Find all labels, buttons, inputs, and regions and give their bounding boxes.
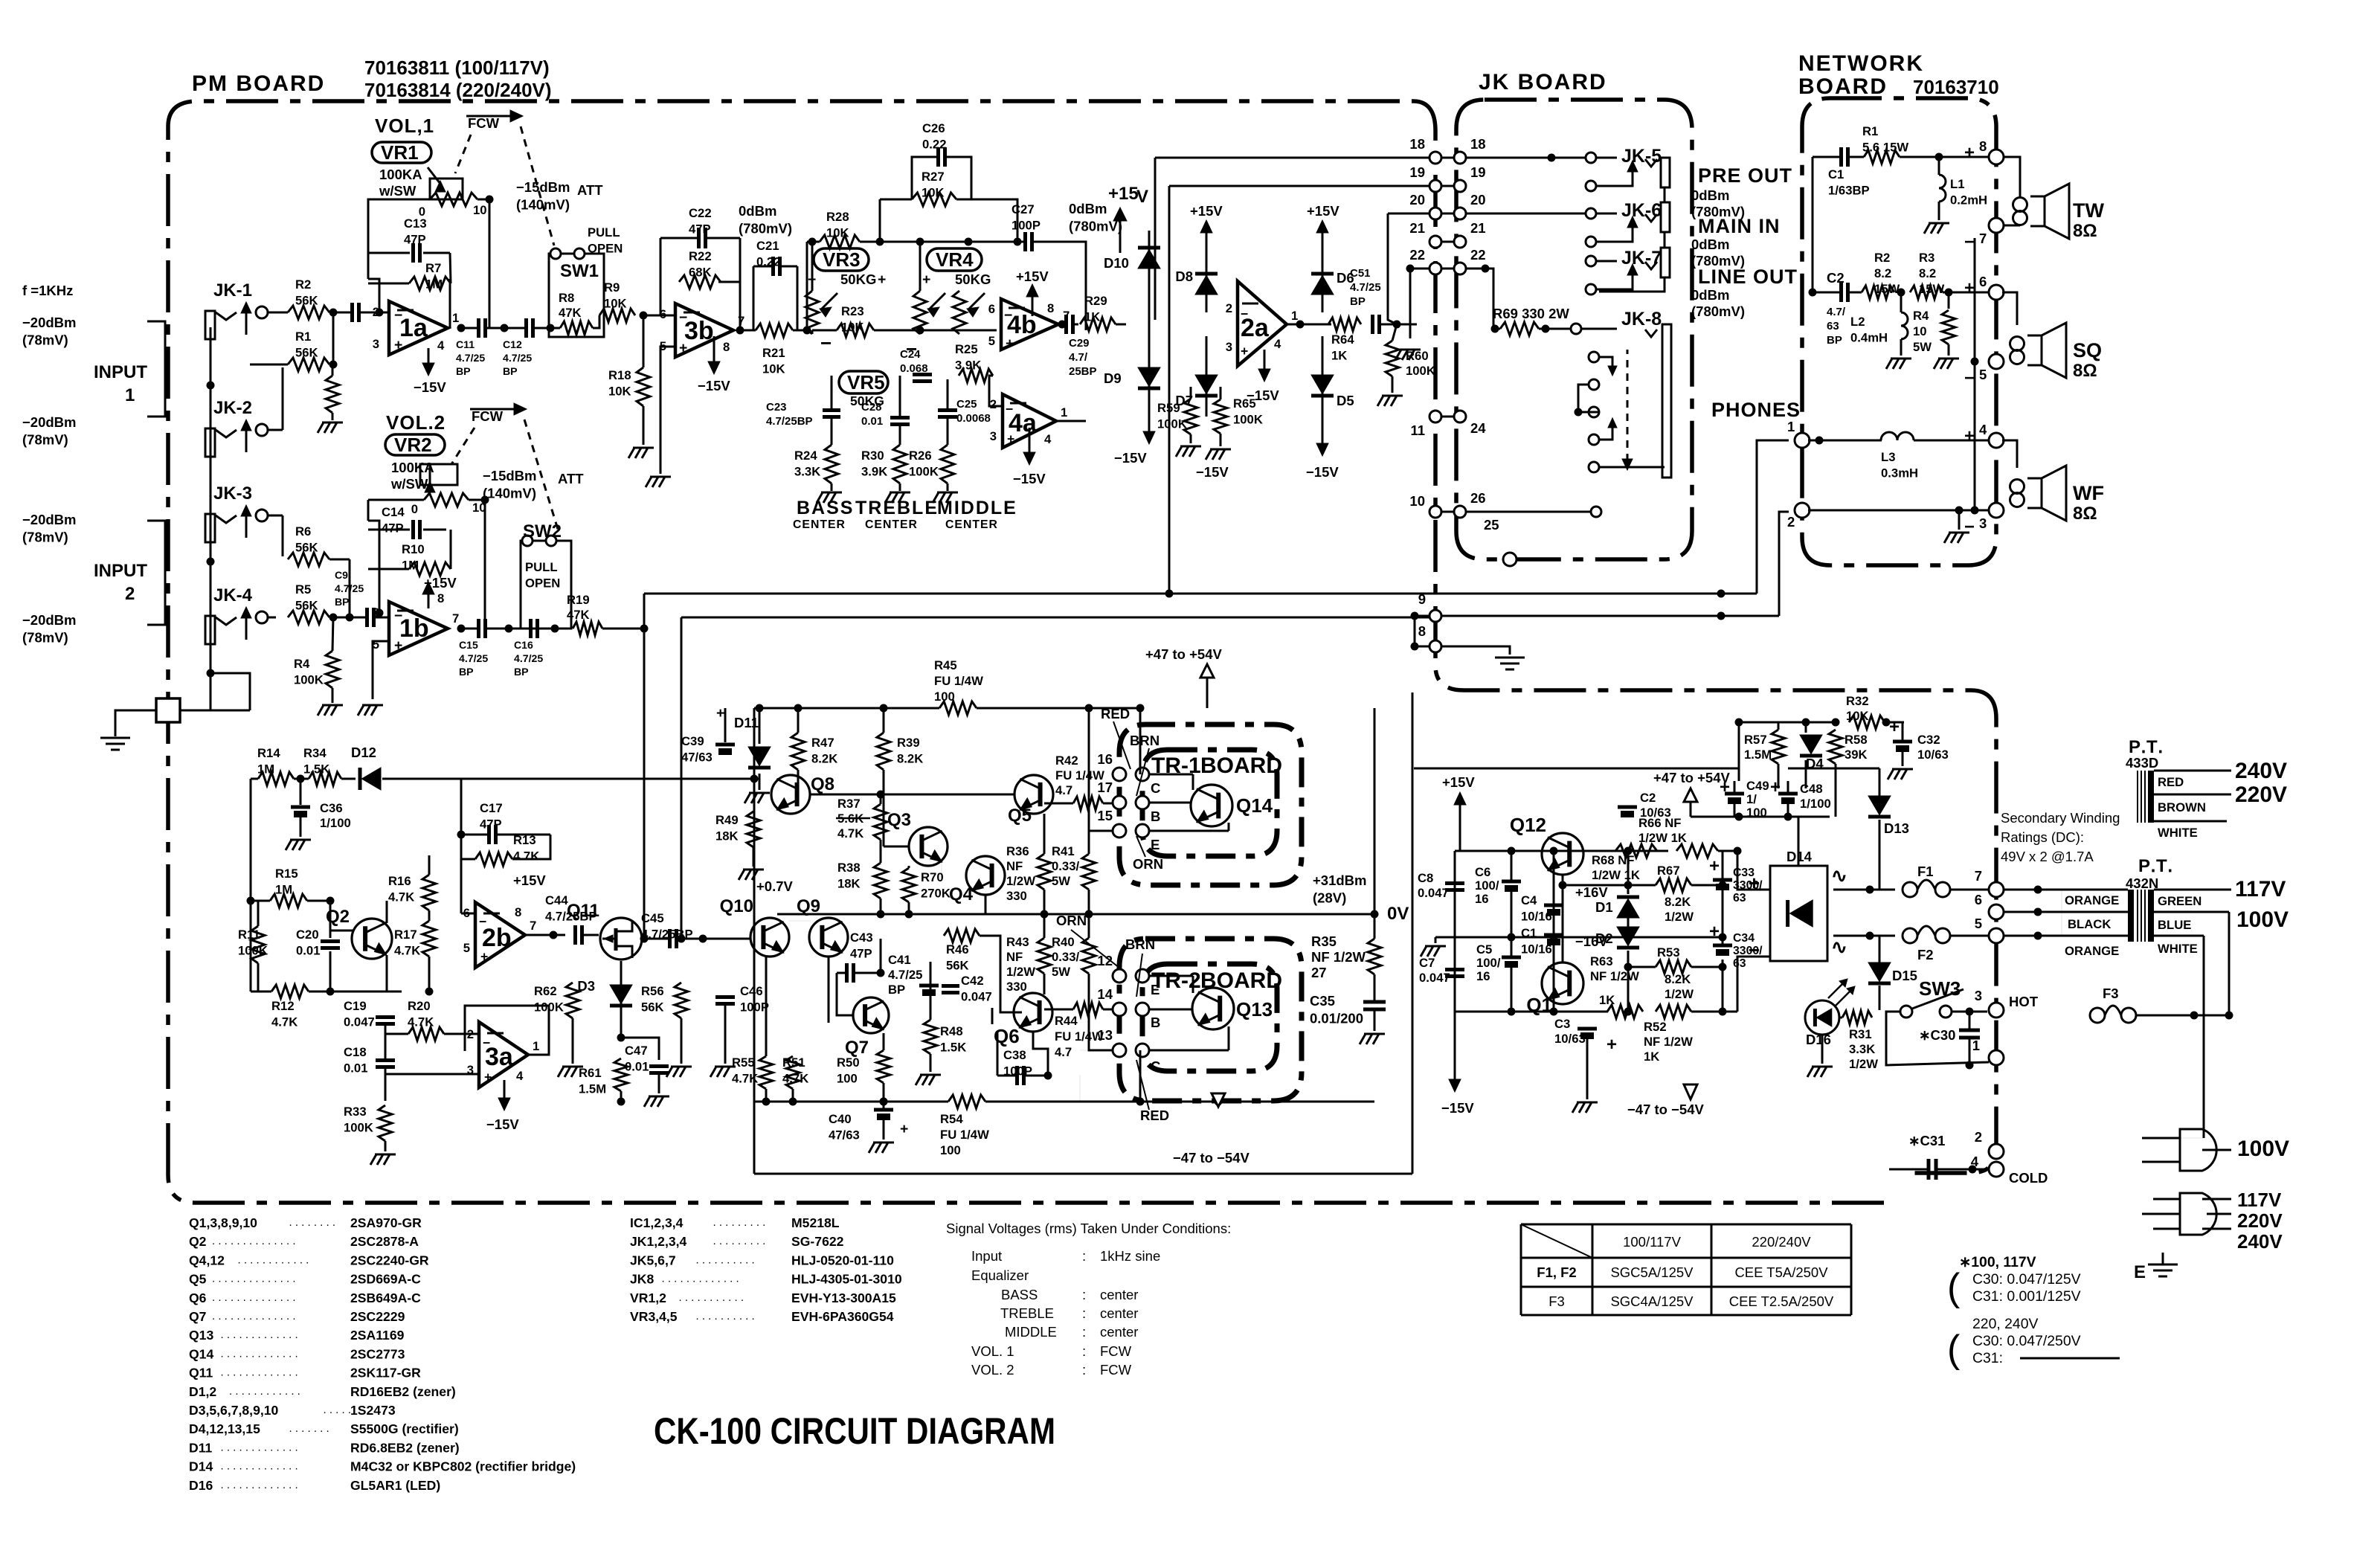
svg-text:220/240V: 220/240V (1752, 1234, 1811, 1250)
svg-text:−15V: −15V (1196, 464, 1229, 480)
svg-text:WHITE: WHITE (2158, 942, 2198, 956)
svg-text:V: V (1136, 187, 1148, 207)
svg-text:0.4mH: 0.4mH (1850, 330, 1888, 344)
svg-text:70163710: 70163710 (1913, 76, 1999, 98)
svg-text:(: ( (1947, 1328, 1961, 1371)
svg-text:R19: R19 (567, 593, 590, 607)
svg-text:D13: D13 (1884, 820, 1909, 836)
svg-text:Q13: Q13 (189, 1328, 213, 1343)
svg-text:+: + (484, 1070, 492, 1084)
svg-text:2: 2 (125, 584, 135, 604)
svg-text:NF: NF (1006, 859, 1023, 873)
svg-text:R12: R12 (271, 999, 295, 1013)
svg-text:R34: R34 (303, 746, 327, 760)
svg-text:JK BOARD: JK BOARD (1479, 70, 1607, 94)
svg-text:. . . . . . . . . .: . . . . . . . . . . (696, 1310, 755, 1322)
svg-text:+: + (679, 340, 687, 356)
svg-text:VR3: VR3 (823, 248, 861, 271)
svg-text:−: − (679, 309, 687, 326)
svg-text:+: + (1770, 777, 1781, 797)
svg-text:56K: 56K (641, 1000, 664, 1014)
svg-text:+: + (1006, 335, 1014, 352)
svg-text:FCW: FCW (468, 115, 500, 131)
svg-text:117V: 117V (2237, 1189, 2282, 1211)
svg-text:ATT: ATT (577, 182, 603, 198)
svg-text:4.7/25BP: 4.7/25BP (766, 415, 813, 428)
svg-text:Q11: Q11 (189, 1366, 213, 1381)
svg-text:C9: C9 (335, 569, 348, 581)
svg-text:−: − (479, 914, 486, 929)
svg-text:INPUT: INPUT (94, 561, 147, 581)
svg-text:330: 330 (1006, 889, 1027, 903)
svg-text:10: 10 (1913, 324, 1927, 338)
svg-text:2SK117-GR: 2SK117-GR (350, 1366, 421, 1381)
svg-text:∗100, 117V: ∗100, 117V (1959, 1254, 2036, 1270)
svg-text:C5: C5 (1476, 942, 1492, 957)
svg-text:0.33/: 0.33/ (1052, 859, 1079, 873)
svg-text:+15V: +15V (1190, 203, 1223, 219)
svg-text:D9: D9 (1104, 370, 1122, 386)
svg-text:4.7K: 4.7K (408, 1015, 434, 1029)
svg-text:C28: C28 (861, 401, 882, 414)
svg-text:Q10: Q10 (720, 896, 753, 916)
svg-text:16: 16 (1476, 969, 1490, 983)
svg-text:1M: 1M (257, 762, 274, 776)
svg-text:R60: R60 (1406, 349, 1429, 363)
svg-text:RED: RED (2158, 775, 2184, 789)
svg-text:RD16EB2 (zener): RD16EB2 (zener) (350, 1384, 456, 1399)
svg-text::: : (1082, 1343, 1086, 1359)
svg-text:WHITE: WHITE (2158, 826, 2198, 840)
svg-text:3.3K: 3.3K (1849, 1042, 1875, 1056)
svg-text:Q13: Q13 (1236, 998, 1273, 1021)
svg-text:HLJ-4305-01-3010: HLJ-4305-01-3010 (791, 1272, 902, 1287)
svg-text:D11: D11 (189, 1440, 213, 1455)
svg-text:3: 3 (990, 429, 997, 443)
svg-text:F3: F3 (2103, 986, 2119, 1001)
svg-text:−20dBm: −20dBm (22, 414, 77, 430)
svg-text:0dBm: 0dBm (739, 203, 776, 219)
svg-text:1K: 1K (1084, 309, 1100, 324)
svg-text:Q5: Q5 (1008, 806, 1032, 826)
svg-text:13: 13 (1097, 1027, 1113, 1043)
svg-text:−: − (483, 1035, 490, 1050)
svg-text:220V: 220V (2235, 782, 2287, 807)
svg-text:NF: NF (1006, 950, 1023, 964)
svg-text:2: 2 (990, 397, 997, 411)
svg-text:47/63: 47/63 (681, 750, 713, 764)
svg-text:47K: 47K (559, 306, 582, 320)
svg-text:−: − (1964, 368, 1975, 388)
svg-text:R15: R15 (275, 867, 298, 881)
svg-text:∿: ∿ (1831, 936, 1847, 958)
svg-text:10/16: 10/16 (1521, 909, 1552, 923)
svg-text:R61: R61 (579, 1066, 602, 1080)
svg-text:C49: C49 (1746, 779, 1769, 793)
svg-text:2SA1169: 2SA1169 (350, 1328, 405, 1343)
svg-text:center: center (1100, 1324, 1138, 1340)
svg-text:C38: C38 (1003, 1048, 1026, 1062)
svg-text:4.7K: 4.7K (388, 890, 414, 904)
svg-text:20: 20 (1409, 192, 1425, 208)
svg-text:7: 7 (530, 919, 536, 933)
svg-text:270K: 270K (921, 886, 951, 900)
svg-text:ORANGE: ORANGE (2065, 944, 2119, 958)
svg-text:21: 21 (1470, 220, 1486, 236)
svg-text:f =1KHz: f =1KHz (22, 283, 73, 298)
svg-text:100KA: 100KA (379, 167, 422, 182)
svg-text:−15V: −15V (414, 379, 446, 395)
svg-text:3.9K: 3.9K (955, 358, 981, 372)
svg-text:(28V): (28V) (1313, 890, 1346, 906)
svg-text:R50: R50 (837, 1055, 860, 1070)
svg-text:BRN: BRN (1125, 936, 1155, 952)
svg-text:100V: 100V (2237, 1137, 2289, 1161)
svg-text:+15V: +15V (513, 872, 546, 888)
svg-text:M5218L: M5218L (791, 1215, 840, 1230)
svg-text:−16V: −16V (1575, 933, 1608, 949)
svg-text:BP: BP (1827, 334, 1842, 347)
svg-text:C23: C23 (766, 401, 787, 414)
svg-text:HLJ-0520-01-110: HLJ-0520-01-110 (791, 1253, 894, 1267)
svg-text:8: 8 (1979, 138, 1987, 154)
svg-text:47P: 47P (382, 521, 404, 535)
svg-text:1/: 1/ (1746, 792, 1757, 806)
svg-text:1: 1 (1291, 309, 1298, 323)
svg-text:4: 4 (1044, 432, 1052, 446)
svg-text:4.7: 4.7 (1055, 1045, 1072, 1059)
svg-text:2: 2 (1787, 514, 1795, 530)
svg-text:100K: 100K (344, 1120, 373, 1134)
svg-text:ORN: ORN (1133, 856, 1163, 872)
svg-text:1.5M: 1.5M (579, 1081, 606, 1096)
svg-text:JK-8: JK-8 (1621, 309, 1662, 330)
svg-text:. . . . . . . . . . . . .: . . . . . . . . . . . . . (221, 1441, 298, 1453)
svg-text:5W: 5W (1913, 340, 1932, 354)
svg-text:117V: 117V (2235, 877, 2286, 901)
svg-text:R10: R10 (402, 542, 425, 556)
svg-text:10/63: 10/63 (1917, 748, 1949, 762)
svg-text:0.0068: 0.0068 (956, 412, 991, 425)
svg-text:26: 26 (1470, 490, 1486, 506)
svg-text:1/63BP: 1/63BP (1828, 183, 1870, 197)
svg-text:+: + (900, 1121, 908, 1137)
svg-text:8Ω: 8Ω (2073, 361, 2097, 381)
svg-text:R14: R14 (257, 746, 280, 760)
svg-text:C17: C17 (480, 801, 503, 815)
svg-text:Q14: Q14 (189, 1346, 213, 1361)
svg-text:3: 3 (1975, 988, 1982, 1003)
svg-text:. . . . . . . . . . . . .: . . . . . . . . . . . . . (221, 1460, 298, 1473)
svg-text:Q7: Q7 (845, 1038, 869, 1058)
svg-text:C31: 0.001/125V: C31: 0.001/125V (1972, 1288, 2081, 1305)
svg-text:4.7K: 4.7K (837, 826, 863, 841)
svg-text:. . . . . . . . . .: . . . . . . . . . . (696, 1253, 755, 1266)
svg-text:14: 14 (1097, 986, 1113, 1002)
svg-text:Q1,3,8,9,10: Q1,3,8,9,10 (189, 1215, 257, 1230)
svg-text:68K: 68K (689, 265, 712, 279)
svg-text:C43: C43 (850, 931, 873, 945)
svg-text:8: 8 (723, 340, 730, 354)
svg-text:−15V: −15V (486, 1116, 519, 1132)
svg-text:R4: R4 (294, 657, 310, 671)
svg-text:15: 15 (1097, 808, 1113, 823)
svg-text:FCW: FCW (472, 408, 504, 424)
svg-text:R55: R55 (732, 1055, 755, 1070)
svg-text:1/2W 1K: 1/2W 1K (1592, 868, 1640, 882)
svg-text:R26: R26 (909, 449, 932, 463)
svg-text:C30: 0.047/125V: C30: 0.047/125V (1972, 1271, 2081, 1288)
svg-text:R23: R23 (841, 304, 864, 318)
svg-text:RED: RED (1101, 706, 1130, 721)
svg-text:FU 1/4W: FU 1/4W (1055, 1029, 1104, 1044)
svg-text:Q6: Q6 (189, 1291, 207, 1305)
svg-text:1/2W: 1/2W (1665, 987, 1694, 1001)
svg-text:. . . . . . . . . . . .: . . . . . . . . . . . . (229, 1385, 300, 1398)
svg-text:R5: R5 (295, 582, 311, 597)
svg-text:CEE T2.5A/250V: CEE T2.5A/250V (1729, 1293, 1834, 1309)
svg-text:w/SW: w/SW (379, 183, 416, 199)
svg-text:BLACK: BLACK (2068, 917, 2111, 931)
svg-text:D3,5,6,7,8,9,10: D3,5,6,7,8,9,10 (189, 1403, 279, 1418)
svg-text:FCW: FCW (1100, 1343, 1132, 1359)
svg-text:1M: 1M (425, 277, 443, 291)
svg-text:−: − (1749, 939, 1760, 961)
svg-text:R1: R1 (1862, 124, 1878, 138)
svg-text:C12: C12 (503, 338, 522, 350)
svg-text:Q2: Q2 (189, 1234, 207, 1249)
svg-text:P․T․: P․T․ (2129, 737, 2164, 757)
svg-text:+: + (922, 271, 930, 288)
svg-text:C16: C16 (514, 639, 533, 651)
svg-text:. . . . . . . . . . . . .: . . . . . . . . . . . . . (221, 1479, 298, 1491)
svg-text:FU 1/4W: FU 1/4W (934, 674, 983, 688)
svg-text:BP: BP (456, 365, 471, 377)
svg-text:5: 5 (1975, 916, 1982, 931)
svg-text:COLD: COLD (2009, 1170, 2048, 1186)
svg-text:D16: D16 (1806, 1032, 1831, 1047)
svg-text:PHONES: PHONES (1711, 399, 1801, 421)
svg-text:Q11: Q11 (567, 901, 599, 921)
svg-text:C40: C40 (829, 1112, 852, 1126)
svg-text:R62: R62 (534, 984, 557, 998)
svg-text:CENTER: CENTER (865, 518, 918, 531)
svg-text:47/63: 47/63 (829, 1128, 860, 1142)
svg-text:TREBLE: TREBLE (1000, 1305, 1054, 1321)
svg-text:100: 100 (940, 1143, 961, 1157)
svg-text:2SC2240-GR: 2SC2240-GR (350, 1253, 429, 1267)
svg-text:+: + (1709, 856, 1720, 876)
svg-text:27: 27 (1311, 965, 1327, 980)
svg-text:R16: R16 (388, 874, 411, 888)
svg-text:BP: BP (459, 666, 474, 678)
svg-text:5W: 5W (1052, 874, 1070, 888)
svg-text:. . . . . . . . . . . . . .: . . . . . . . . . . . . . . (212, 1291, 296, 1304)
svg-text:C19: C19 (344, 999, 367, 1013)
svg-text::: : (1082, 1248, 1086, 1264)
svg-text:18: 18 (1409, 136, 1425, 152)
svg-text:R70: R70 (921, 870, 944, 884)
svg-text:1K: 1K (1644, 1050, 1659, 1064)
svg-text:47P: 47P (689, 222, 711, 236)
svg-text:0.047: 0.047 (1418, 886, 1449, 900)
svg-text:C47: C47 (625, 1044, 648, 1058)
svg-text:Equalizer: Equalizer (971, 1267, 1029, 1283)
svg-text:FCW: FCW (1100, 1362, 1132, 1378)
svg-text:18K: 18K (837, 876, 861, 890)
svg-text:4: 4 (437, 338, 445, 353)
svg-text:−15V: −15V (1306, 464, 1339, 480)
svg-text:3.9K: 3.9K (861, 464, 887, 478)
svg-text:NETWORK: NETWORK (1798, 51, 1924, 76)
svg-text:L3: L3 (1881, 450, 1895, 464)
svg-text:. . . . . . . . .: . . . . . . . . . (713, 1235, 766, 1247)
svg-text:100V: 100V (2236, 907, 2289, 932)
svg-text:R25: R25 (955, 342, 978, 356)
svg-text:VR1,2: VR1,2 (630, 1291, 666, 1305)
svg-text:C11: C11 (456, 338, 475, 350)
svg-text:(780mV): (780mV) (1691, 303, 1745, 319)
svg-text:R64: R64 (1331, 332, 1354, 347)
svg-text::: : (1082, 1305, 1086, 1321)
svg-text:10K: 10K (922, 185, 945, 199)
svg-text:M4C32 or KBPC802 (rectifier br: M4C32 or KBPC802 (rectifier bridge) (350, 1459, 576, 1474)
svg-text:10K: 10K (604, 296, 627, 310)
svg-text:C48: C48 (1800, 782, 1823, 796)
svg-text:R1: R1 (295, 330, 311, 344)
svg-text:BOARD: BOARD (1798, 74, 1888, 99)
svg-text:10K: 10K (826, 225, 849, 240)
svg-text:15W: 15W (1919, 282, 1945, 296)
svg-text:E: E (1151, 837, 1160, 852)
svg-text:R52: R52 (1644, 1020, 1667, 1034)
svg-text:47P: 47P (480, 817, 502, 831)
svg-text:−: − (394, 307, 402, 324)
svg-text:VR2: VR2 (394, 434, 432, 456)
svg-text:8Ω: 8Ω (2073, 221, 2097, 241)
svg-text:C15: C15 (459, 639, 478, 651)
svg-text:1/2W 1K: 1/2W 1K (1638, 831, 1687, 845)
svg-text:R37: R37 (837, 797, 861, 811)
svg-text:433D: 433D (2126, 755, 2158, 771)
svg-text:R32: R32 (1846, 694, 1869, 708)
svg-text:4: 4 (516, 1069, 524, 1083)
svg-text:WF: WF (2073, 482, 2104, 504)
svg-text:100/117V: 100/117V (1623, 1234, 1681, 1250)
svg-text:C14: C14 (382, 505, 405, 519)
svg-text:+: + (1964, 143, 1975, 163)
svg-text:R69 330 2W: R69 330 2W (1493, 306, 1569, 321)
svg-text:D12: D12 (351, 745, 376, 760)
svg-text:5: 5 (988, 334, 995, 348)
svg-text:+: + (394, 337, 402, 353)
svg-text:0.01: 0.01 (861, 415, 883, 428)
svg-text:R58: R58 (1844, 733, 1868, 747)
svg-text:R11: R11 (238, 928, 260, 942)
svg-text:22: 22 (1470, 247, 1486, 263)
svg-text:C18: C18 (344, 1045, 367, 1059)
svg-text:−15dBm: −15dBm (516, 179, 570, 195)
svg-text:3b: 3b (684, 317, 714, 345)
svg-text:1/2W: 1/2W (1006, 874, 1035, 888)
svg-text:L2: L2 (1850, 315, 1865, 329)
svg-text:+: + (1007, 431, 1014, 446)
svg-text:C30: 0.047/250V: C30: 0.047/250V (1972, 1333, 2081, 1349)
svg-text:CK-100 CIRCUIT DIAGRAM: CK-100 CIRCUIT DIAGRAM (654, 1410, 1055, 1452)
svg-text:R66 NF: R66 NF (1638, 816, 1682, 830)
svg-text:SQ: SQ (2073, 339, 2102, 361)
svg-text:B: B (1151, 809, 1160, 824)
svg-text:Input: Input (971, 1248, 1002, 1264)
svg-text:+31dBm: +31dBm (1313, 872, 1367, 888)
svg-text:8: 8 (1418, 623, 1426, 639)
svg-text:B: B (1151, 1015, 1160, 1030)
svg-text:R22: R22 (689, 249, 712, 263)
svg-text:C32: C32 (1917, 733, 1940, 747)
svg-text:R35: R35 (1311, 933, 1337, 949)
svg-text:BOARD: BOARD (1200, 753, 1282, 778)
svg-text:1M: 1M (275, 882, 292, 896)
svg-text:C25: C25 (956, 398, 977, 411)
svg-text:R33: R33 (344, 1105, 367, 1119)
svg-text:RED: RED (1140, 1108, 1169, 1123)
svg-text:3.3K: 3.3K (794, 464, 820, 478)
svg-text:R46: R46 (946, 942, 969, 957)
svg-text:(780mV): (780mV) (739, 221, 792, 237)
svg-text:VR3,4,5: VR3,4,5 (630, 1309, 678, 1324)
svg-text:R28: R28 (826, 210, 849, 224)
svg-text:0.047: 0.047 (344, 1015, 375, 1029)
svg-text:100: 100 (934, 690, 955, 704)
svg-text:+47 to +54V: +47 to +54V (1145, 646, 1223, 662)
svg-text:D15: D15 (1892, 968, 1917, 983)
svg-text:JK8: JK8 (630, 1272, 654, 1287)
svg-text:1.5M: 1.5M (1744, 748, 1772, 762)
svg-text:4.7: 4.7 (1055, 783, 1072, 797)
svg-text:−: − (1006, 402, 1013, 417)
svg-text:NF 1/2W: NF 1/2W (1311, 949, 1366, 965)
svg-text:C29: C29 (1069, 337, 1090, 350)
svg-text:39K: 39K (1844, 748, 1868, 762)
svg-text:−: − (1241, 306, 1248, 321)
svg-text:MIDDLE: MIDDLE (1005, 1324, 1057, 1340)
svg-text:R38: R38 (837, 861, 861, 875)
svg-text:C: C (1151, 1058, 1160, 1074)
svg-text:R43: R43 (1006, 935, 1029, 949)
svg-text:VOL.2: VOL.2 (386, 411, 446, 434)
svg-text:56K: 56K (946, 958, 969, 972)
svg-text:. . . . . . . . . . . . . .: . . . . . . . . . . . . . . (212, 1273, 296, 1285)
svg-text:F1: F1 (1917, 864, 1934, 879)
svg-text:IC1,2,3,4: IC1,2,3,4 (630, 1215, 684, 1230)
svg-text:−: − (1964, 232, 1975, 252)
svg-text:GREEN: GREEN (2158, 894, 2201, 908)
svg-text:1a: 1a (399, 314, 428, 342)
svg-text:C20: C20 (296, 928, 319, 942)
svg-text:NF 1/2W: NF 1/2W (1644, 1035, 1693, 1049)
svg-text:ORANGE: ORANGE (2065, 893, 2119, 907)
svg-text:63: 63 (1827, 320, 1839, 332)
svg-text:7: 7 (738, 314, 744, 328)
svg-text:4.7/25: 4.7/25 (456, 352, 485, 364)
svg-text:BASS: BASS (797, 498, 854, 518)
svg-text:3: 3 (1226, 340, 1232, 354)
svg-text:D5: D5 (1337, 393, 1354, 408)
svg-text:D14: D14 (1786, 849, 1813, 864)
svg-text:R21: R21 (762, 346, 785, 360)
svg-text:BOARD: BOARD (1200, 968, 1282, 993)
svg-text:center: center (1100, 1305, 1138, 1321)
